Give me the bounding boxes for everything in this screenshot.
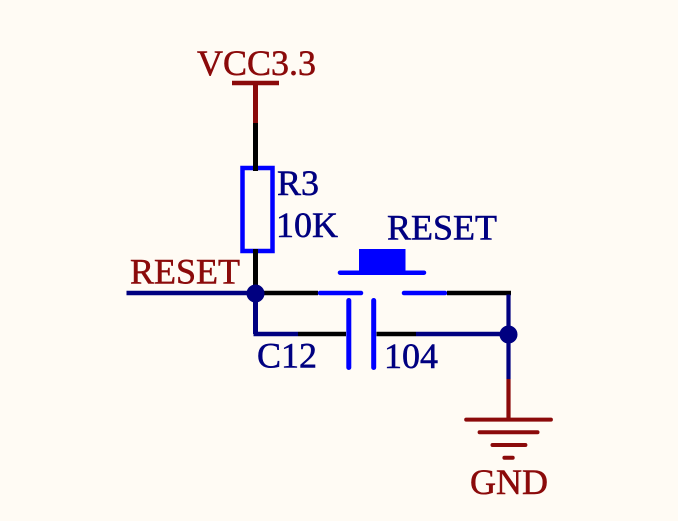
power port VCC3.3 stem (253, 83, 258, 123)
svg-text:RESET: RESET (130, 252, 240, 292)
resistor R3 pin 2 (bottom) (253, 249, 258, 293)
ground bar 3 (493, 443, 526, 447)
power port VCC3.3 bar (232, 81, 279, 86)
capacitor C12 pin 2 (black) (377, 332, 417, 337)
capacitor C12 pin 1 (black) (298, 332, 346, 337)
capacitor C12 left plate (346, 301, 351, 368)
switch S1 pin 1 (left, black) (256, 291, 319, 296)
wire capacitor row left (navy) (254, 332, 299, 337)
wire RESET net (left horizontal) (127, 291, 256, 296)
svg-text:104: 104 (384, 336, 438, 376)
ground bar 1 (466, 418, 551, 422)
switch S1 pin 2 (right, black) (447, 291, 511, 296)
resistor R3 pin 1 (top) (253, 123, 258, 171)
wire junction A down to capacitor row (253, 294, 258, 335)
wire capacitor row right (navy) (416, 332, 509, 337)
ground bar 4 (504, 456, 512, 460)
capacitor C12 right plate (371, 301, 376, 368)
resistor R3 body (243, 168, 273, 251)
switch S1 actuator bar (340, 270, 424, 275)
switch S1 left contact (320, 291, 361, 296)
svg-text:R3: R3 (277, 163, 319, 203)
svg-text:10K: 10K (276, 205, 338, 245)
junction node A (247, 285, 265, 303)
junction node B (500, 326, 518, 344)
svg-text:VCC3.3: VCC3.3 (197, 43, 316, 83)
wire right vertical (switch to junction B) (506, 295, 510, 335)
wire junction B down (506, 334, 510, 379)
ground bar 2 (480, 430, 538, 434)
switch S1 button cap (359, 249, 406, 273)
svg-text:RESET: RESET (387, 208, 497, 248)
svg-text:C12: C12 (257, 336, 317, 376)
ground stem (506, 379, 510, 420)
svg-text:GND: GND (470, 462, 548, 502)
switch S1 right contact (404, 291, 445, 296)
